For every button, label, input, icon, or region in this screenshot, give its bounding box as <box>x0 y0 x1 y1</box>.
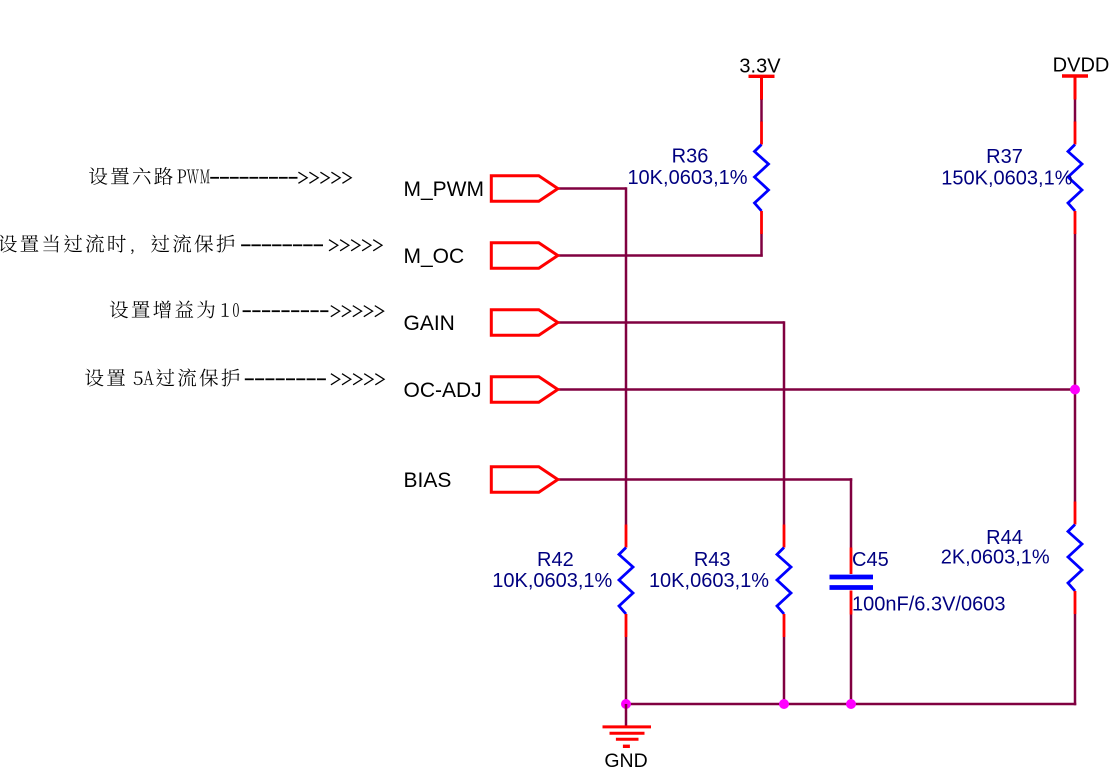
wire: R42 bottom to GND rail <box>625 637 628 704</box>
wire: GAIN port to vertical net <box>558 321 784 324</box>
resistor R36 <box>627 122 768 235</box>
svg-text:10K,0603,1%: 10K,0603,1% <box>492 570 612 592</box>
wire: GND rail <box>626 703 1076 706</box>
wire: M_OC port to R36 bottom corner <box>558 254 763 257</box>
svg-text:3.3V: 3.3V <box>739 56 781 78</box>
wire: DVDD to R37 <box>1074 100 1077 123</box>
svg-text:100nF/6.3V/0603: 100nF/6.3V/0603 <box>852 594 1005 616</box>
port M_PWM <box>404 176 558 202</box>
svg-text:M_PWM: M_PWM <box>404 178 485 201</box>
svg-text:10K,0603,1%: 10K,0603,1% <box>627 167 747 189</box>
node junction GND rail / R42 <box>621 699 631 709</box>
svg-text:150K,0603,1%: 150K,0603,1% <box>941 168 1072 190</box>
resistor R37 <box>941 122 1082 235</box>
node junction GND rail / R43 <box>779 699 789 709</box>
wire: OC-ADJ port to DVDD net <box>558 388 1075 391</box>
wire: R37 bottom to junction <box>1074 234 1077 390</box>
svg-text:M_OC: M_OC <box>404 245 465 268</box>
svg-text:R42: R42 <box>537 549 574 571</box>
capacitor C45 <box>830 548 1006 616</box>
port OC-ADJ <box>404 377 558 403</box>
wire: GAIN net vertical down to R43 <box>783 321 786 524</box>
annotation: 设置六路PWM note <box>89 167 351 185</box>
resistor R42 <box>492 525 633 638</box>
resistor R44 <box>941 502 1082 615</box>
wire: C45 bottom to GND rail <box>850 615 853 705</box>
annotation: 设置当过流时过流保护 note <box>0 234 382 254</box>
node junction GND rail / C45 <box>846 699 856 709</box>
wire: junction down to R44 <box>1074 390 1077 502</box>
svg-text:GND: GND <box>604 750 647 772</box>
svg-text:DVDD: DVDD <box>1053 55 1110 77</box>
wire: 3.3V to R36 <box>760 100 763 123</box>
svg-text:OC-ADJ: OC-ADJ <box>404 379 482 402</box>
node junction OC-ADJ / DVDD net <box>1070 385 1080 395</box>
annotation: 设置增益为10 note <box>110 300 384 318</box>
port BIAS <box>404 467 558 493</box>
wire: M_PWM port to vertical net <box>558 187 626 190</box>
svg-text:R37: R37 <box>986 146 1023 168</box>
svg-text:BIAS: BIAS <box>404 469 452 492</box>
svg-text:R43: R43 <box>694 549 731 571</box>
ground GND <box>603 704 652 772</box>
wire: R43 bottom to GND rail <box>783 637 786 704</box>
power symbol 3.3V <box>739 56 781 100</box>
svg-text:GAIN: GAIN <box>404 312 455 335</box>
wire: BIAS corner down to C45 <box>850 478 853 547</box>
svg-text:R36: R36 <box>672 145 709 167</box>
svg-text:2K,0603,1%: 2K,0603,1% <box>941 547 1050 569</box>
wire: R44 bottom to GND rail <box>1074 614 1077 705</box>
wire: R36 bottom to M_OC wire <box>760 234 763 257</box>
wire: M_PWM net vertical down to R42 <box>625 187 628 524</box>
annotation: 设置5A过流保护 note <box>85 368 384 386</box>
resistor R43 <box>649 525 791 638</box>
svg-text:10K,0603,1%: 10K,0603,1% <box>649 570 769 592</box>
wire: BIAS port to C45 corner <box>558 478 852 481</box>
port M_OC <box>404 243 558 269</box>
port GAIN <box>404 310 558 336</box>
svg-text:C45: C45 <box>852 549 889 571</box>
power symbol DVDD <box>1053 55 1110 100</box>
